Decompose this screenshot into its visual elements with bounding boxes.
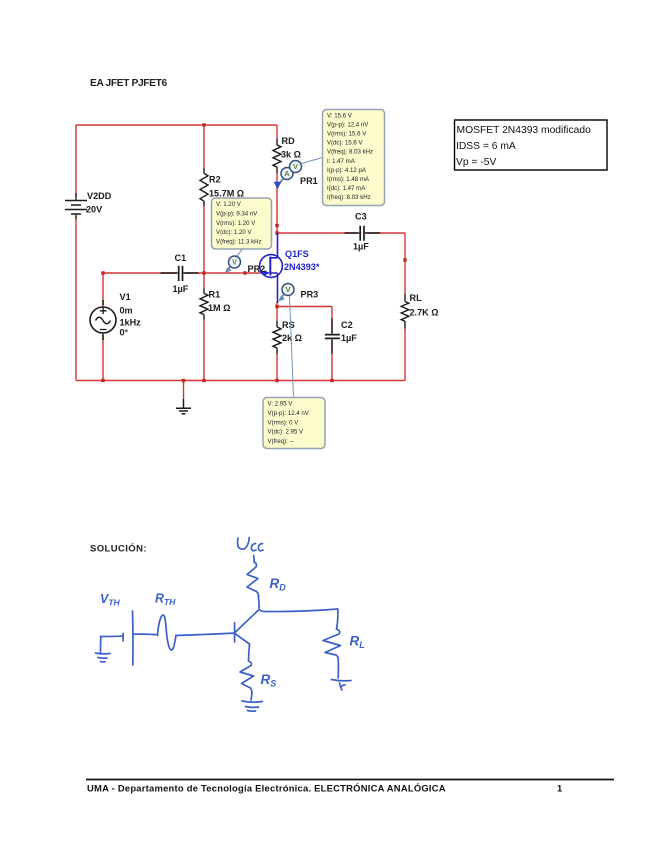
svg-text:V: V [285,285,290,294]
svg-text:20V: 20V [86,205,102,215]
svg-text:RD: RD [282,136,296,146]
svg-text:0m: 0m [120,306,133,316]
svg-text:SOLUCIÓN:: SOLUCIÓN: [90,543,147,555]
svg-text:I(rms): 1.48 mA: I(rms): 1.48 mA [327,176,370,183]
svg-text:MOSFET 2N4393 modificado: MOSFET 2N4393 modificado [457,125,592,136]
svg-text:1: 1 [557,783,562,794]
svg-text:V(rms): 0 V: V(rms): 0 V [268,419,300,426]
svg-text:Vp = -5V: Vp = -5V [456,157,496,168]
svg-text:EA JFET PJFET6: EA JFET PJFET6 [90,78,167,89]
svg-text:Q1FS: Q1FS [285,249,309,259]
svg-text:IDSS = 6 mA: IDSS = 6 mA [456,141,516,152]
svg-text:I(p-p): 4.12 pA: I(p-p): 4.12 pA [327,167,367,174]
svg-text:V(dc): 2.95 V: V(dc): 2.95 V [268,429,304,436]
svg-text:2k Ω: 2k Ω [282,333,302,343]
svg-text:PR3: PR3 [301,290,319,300]
svg-text:2.7K Ω: 2.7K Ω [410,308,439,318]
svg-text:C2: C2 [341,320,353,330]
svg-text:I(freq): 8.03 kHz: I(freq): 8.03 kHz [327,194,371,201]
svg-text:RL: RL [410,293,423,303]
svg-text:C1: C1 [175,253,187,263]
svg-text:V: 2.95 V: V: 2.95 V [268,401,294,408]
svg-text:V: 15.6 V: V: 15.6 V [327,113,353,120]
svg-text:V: V [293,162,298,171]
svg-text:A: A [284,169,290,178]
svg-text:PR2: PR2 [248,264,266,274]
svg-text:1M Ω: 1M Ω [208,303,230,313]
svg-text:V(rms): 15.6 V: V(rms): 15.6 V [327,131,367,138]
svg-text:V2DD: V2DD [87,191,112,201]
svg-text:V(p-p): 12.4 nV: V(p-p): 12.4 nV [327,122,369,129]
svg-text:1µF: 1µF [341,333,357,343]
svg-text:0°: 0° [120,328,129,338]
svg-text:R1: R1 [209,290,221,300]
svg-text:R2: R2 [209,175,221,185]
svg-text:V(p-p): 9.34 nV: V(p-p): 9.34 nV [216,210,258,217]
svg-text:15.7M Ω: 15.7M Ω [209,189,244,199]
svg-text:I: 1.47 mA: I: 1.47 mA [327,158,356,165]
svg-text:V(dc): 15.6 V: V(dc): 15.6 V [327,140,363,147]
svg-text:RS: RS [282,320,295,330]
svg-text:1µF: 1µF [353,242,369,252]
svg-text:2N4393*: 2N4393* [284,262,320,272]
svg-text:V(p-p): 12.4 nV: V(p-p): 12.4 nV [268,410,310,417]
svg-text:I(dc): 1.47 mA: I(dc): 1.47 mA [327,185,366,192]
svg-text:3k Ω: 3k Ω [281,150,301,160]
svg-text:V1: V1 [120,292,131,302]
svg-text:V: 1.20 V: V: 1.20 V [216,201,242,208]
svg-text:V(freq): 8.03 kHz: V(freq): 8.03 kHz [327,149,373,156]
svg-text:UMA - Departamento de Tecnolog: UMA - Departamento de Tecnología Electró… [87,783,446,794]
svg-text:C3: C3 [355,212,367,222]
svg-text:PR1: PR1 [300,176,318,186]
svg-text:V(dc): 1.20 V: V(dc): 1.20 V [216,229,252,236]
svg-text:1kHz: 1kHz [120,318,142,328]
svg-text:V: V [232,258,237,267]
svg-text:V(freq): 11.3 kHz: V(freq): 11.3 kHz [216,239,262,246]
svg-text:1µF: 1µF [173,284,189,294]
svg-text:V(rms): 1.20 V: V(rms): 1.20 V [216,220,256,227]
svg-text:V(freq): --: V(freq): -- [268,438,294,445]
